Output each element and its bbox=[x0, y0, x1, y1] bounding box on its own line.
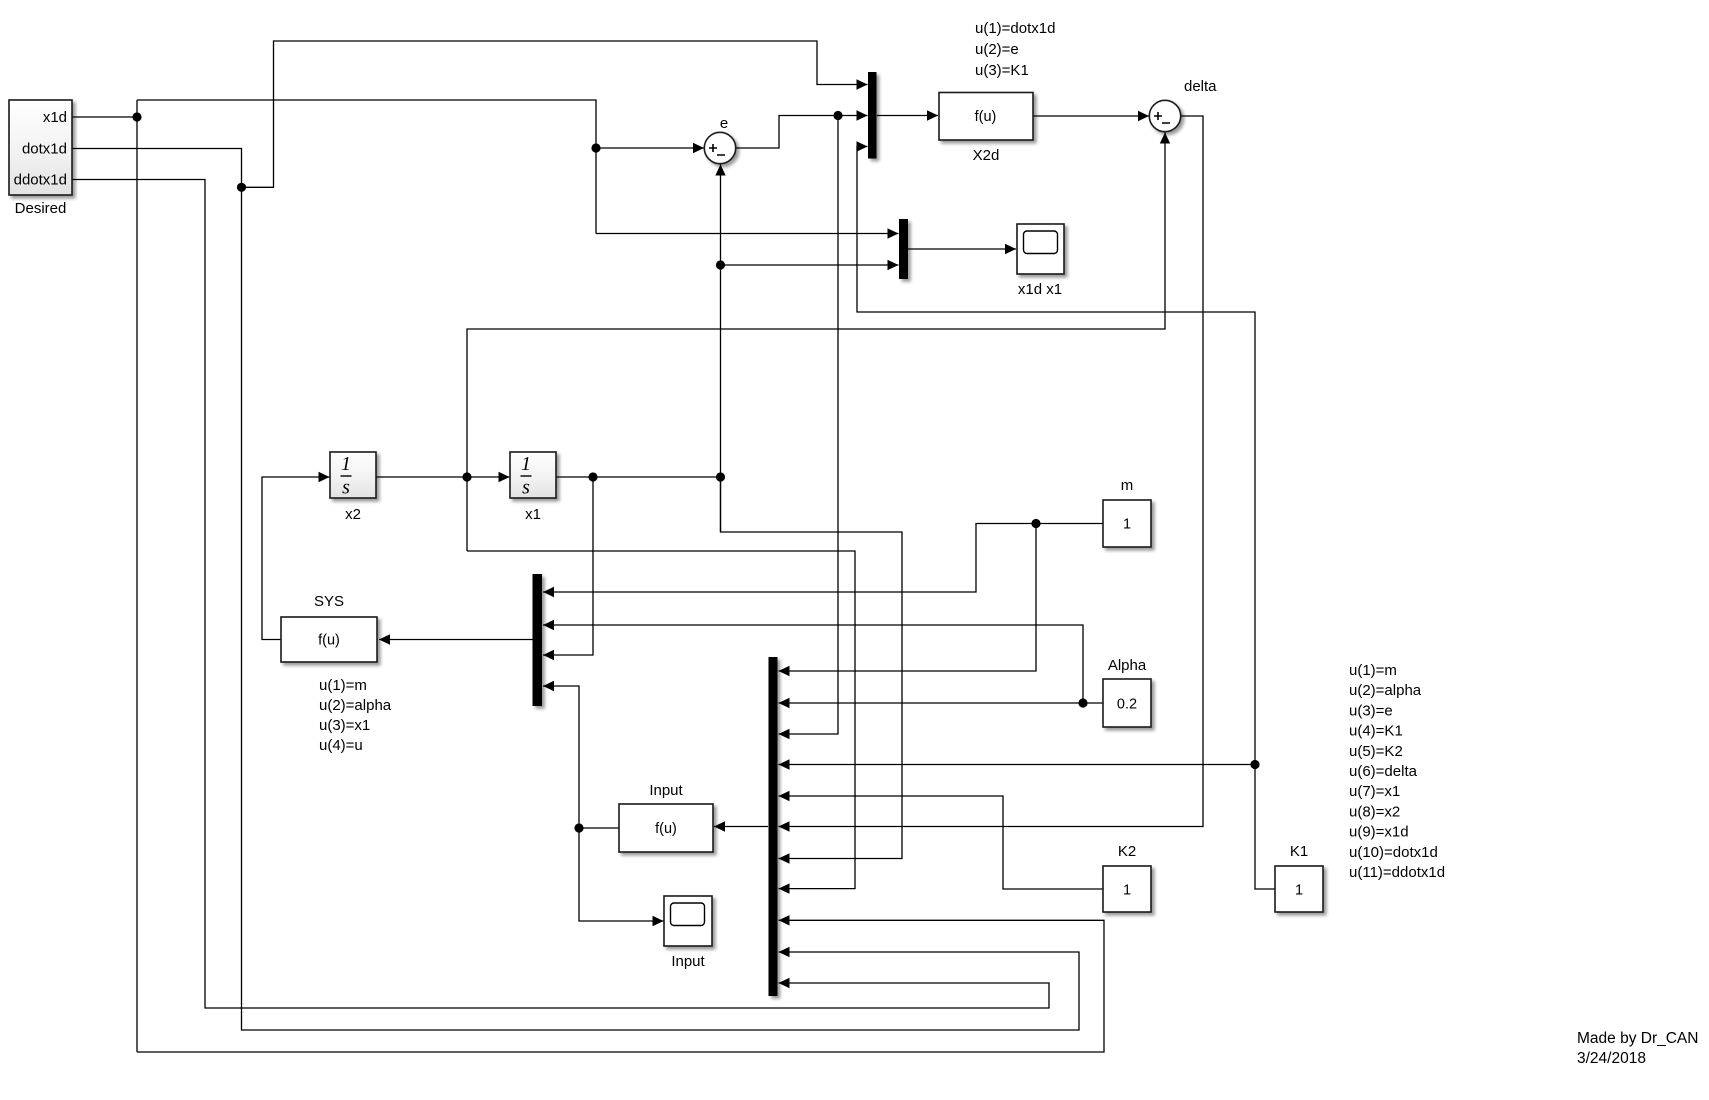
svg-text:1: 1 bbox=[341, 453, 351, 475]
svg-text:u(8)=x2: u(8)=x2 bbox=[1349, 803, 1400, 820]
svg-text:u(1)=dotx1d: u(1)=dotx1d bbox=[975, 20, 1055, 37]
svg-text:X2d: X2d bbox=[973, 147, 1000, 164]
svg-text:1: 1 bbox=[1123, 883, 1131, 899]
svg-text:SYS: SYS bbox=[314, 593, 344, 610]
svg-text:Input: Input bbox=[671, 953, 705, 970]
svg-text:x2: x2 bbox=[345, 506, 361, 523]
svg-text:1: 1 bbox=[1123, 517, 1131, 533]
svg-text:f(u): f(u) bbox=[655, 821, 677, 837]
svg-text:1: 1 bbox=[1295, 883, 1303, 899]
svg-text:Input: Input bbox=[649, 782, 683, 799]
svg-text:u(4)=u: u(4)=u bbox=[319, 737, 363, 754]
svg-text:dotx1d: dotx1d bbox=[22, 141, 67, 158]
svg-text:u(10)=dotx1d: u(10)=dotx1d bbox=[1349, 844, 1438, 861]
svg-text:0.2: 0.2 bbox=[1117, 697, 1137, 713]
svg-text:u(5)=K2: u(5)=K2 bbox=[1349, 743, 1403, 760]
svg-text:x1: x1 bbox=[525, 506, 541, 523]
svg-text:Made by Dr_CAN: Made by Dr_CAN bbox=[1577, 1030, 1698, 1047]
svg-text:f(u): f(u) bbox=[975, 109, 997, 125]
svg-text:m: m bbox=[1121, 477, 1134, 494]
svg-text:delta: delta bbox=[1184, 78, 1217, 95]
svg-text:u(3)=K1: u(3)=K1 bbox=[975, 62, 1029, 79]
svg-text:e: e bbox=[720, 115, 728, 132]
svg-text:u(6)=delta: u(6)=delta bbox=[1349, 763, 1418, 780]
svg-text:u(2)=e: u(2)=e bbox=[975, 41, 1019, 58]
svg-text:x1d x1: x1d x1 bbox=[1018, 281, 1062, 298]
svg-text:K1: K1 bbox=[1290, 843, 1308, 860]
svg-text:s: s bbox=[342, 477, 350, 499]
svg-text:u(11)=ddotx1d: u(11)=ddotx1d bbox=[1349, 864, 1445, 881]
svg-text:Desired: Desired bbox=[15, 200, 67, 217]
svg-text:K2: K2 bbox=[1118, 843, 1136, 860]
svg-text:f(u): f(u) bbox=[318, 633, 340, 649]
svg-text:Alpha: Alpha bbox=[1108, 657, 1147, 674]
svg-text:3/24/2018: 3/24/2018 bbox=[1577, 1050, 1646, 1067]
svg-text:u(2)=alpha: u(2)=alpha bbox=[319, 697, 392, 714]
svg-text:u(1)=m: u(1)=m bbox=[319, 677, 367, 694]
svg-text:u(1)=m: u(1)=m bbox=[1349, 662, 1397, 679]
svg-text:s: s bbox=[522, 477, 530, 499]
svg-text:u(2)=alpha: u(2)=alpha bbox=[1349, 682, 1422, 699]
svg-text:u(7)=x1: u(7)=x1 bbox=[1349, 783, 1400, 800]
svg-text:u(3)=e: u(3)=e bbox=[1349, 702, 1393, 719]
svg-text:u(9)=x1d: u(9)=x1d bbox=[1349, 824, 1409, 841]
svg-text:x1d: x1d bbox=[43, 109, 67, 126]
svg-text:ddotx1d: ddotx1d bbox=[14, 172, 67, 189]
svg-text:1: 1 bbox=[521, 453, 531, 475]
svg-text:u(4)=K1: u(4)=K1 bbox=[1349, 723, 1403, 740]
svg-text:u(3)=x1: u(3)=x1 bbox=[319, 717, 370, 734]
